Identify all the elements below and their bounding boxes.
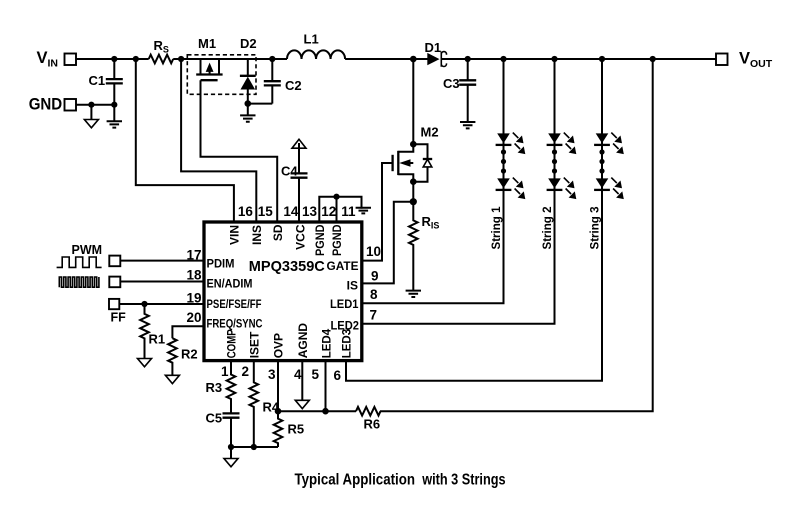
ground earth at PGND	[356, 208, 371, 214]
transistor M2	[393, 59, 439, 182]
svg-text:PSE/FSE/FF: PSE/FSE/FF	[207, 297, 262, 311]
svg-text:18: 18	[186, 268, 202, 283]
wire D1 to VOUT	[442, 58, 717, 60]
svg-text:PDIM: PDIM	[207, 257, 235, 271]
ground arrow AGND	[295, 400, 309, 408]
node dot return branch	[650, 56, 656, 62]
svg-text:14: 14	[283, 204, 299, 219]
svg-text:10: 10	[366, 244, 381, 259]
svg-text:7: 7	[370, 308, 378, 323]
resistor R2	[168, 338, 198, 375]
wire OVP junction to R6	[278, 410, 356, 412]
svg-text:M1: M1	[198, 36, 216, 51]
node dot after Rs	[178, 56, 184, 62]
svg-text:IS: IS	[347, 279, 358, 293]
svg-text:GND: GND	[29, 96, 63, 114]
svg-text:FREQ/SYNC: FREQ/SYNC	[207, 317, 263, 331]
svg-text:LED3: LED3	[340, 328, 354, 358]
wire GND to C1 bottom	[76, 104, 114, 106]
capacitor C4 with VCC arrow	[281, 139, 308, 222]
wire L1 to D1	[345, 58, 429, 60]
svg-text:PGND: PGND	[313, 224, 327, 256]
svg-text:R1: R1	[149, 332, 166, 347]
capacitor C3	[443, 59, 476, 122]
LED string 1	[489, 133, 525, 250]
node dot C1 bottom	[111, 102, 117, 108]
wire M2 source to Ris	[412, 182, 414, 202]
inductor L1	[287, 32, 345, 60]
node dot LED4 junction	[322, 408, 329, 415]
wire Rs to L1	[173, 58, 287, 60]
ground arrow under R2	[165, 375, 179, 383]
node dot C3 top	[465, 56, 471, 62]
ground earth under D2	[240, 104, 255, 122]
node dot pin11 junction	[333, 194, 339, 200]
svg-text:5: 5	[311, 367, 319, 382]
resistor Rs	[149, 38, 174, 63]
node dot string1 top	[500, 56, 506, 62]
svg-text:C4: C4	[281, 164, 298, 179]
node dot R4 bottom	[251, 444, 257, 450]
capacitor C5	[206, 411, 240, 448]
svg-text:9: 9	[371, 269, 379, 284]
svg-text:D2: D2	[240, 36, 257, 51]
wire VIN branch to pin16	[136, 59, 234, 222]
svg-text:String 3: String 3	[588, 206, 602, 249]
node dot string3 top	[599, 56, 605, 62]
resistor R6	[356, 407, 381, 432]
wire IS junction to pin9	[361, 202, 414, 284]
op-amp U1 IC MPQ3359C body	[204, 222, 362, 361]
ground earth under C1	[107, 121, 122, 127]
svg-text:LED4: LED4	[319, 328, 333, 358]
svg-text:3: 3	[268, 367, 276, 382]
node FF input terminal	[109, 299, 126, 325]
svg-text:LED1: LED1	[330, 297, 359, 311]
svg-text:VCC: VCC	[293, 224, 307, 250]
node dot IS junction	[410, 198, 417, 205]
diode D2	[240, 36, 257, 104]
resistor R1	[140, 304, 165, 359]
resistor Ris	[409, 202, 439, 291]
LED string 2	[540, 133, 576, 250]
node GND terminal	[29, 96, 76, 114]
svg-text:COMP: COMP	[225, 329, 239, 358]
node dot R1 junction	[141, 301, 147, 307]
node VOUT terminal	[716, 50, 773, 71]
svg-text:C2: C2	[285, 78, 302, 93]
node dot C5 bottom	[228, 444, 234, 450]
svg-text:OVP: OVP	[272, 333, 286, 358]
wire pin6 LED3 to string3	[346, 59, 602, 381]
wire EN/ADIM to pin18	[121, 281, 204, 283]
svg-text:16: 16	[238, 204, 254, 219]
svg-text:String 1: String 1	[489, 206, 503, 249]
node dot M2 drain	[410, 141, 417, 148]
svg-text:PGND: PGND	[330, 224, 344, 256]
ground earth under Ris	[406, 291, 421, 297]
node EN/ADIM input terminal	[109, 277, 120, 288]
svg-text:D1: D1	[425, 40, 442, 55]
svg-text:AGND: AGND	[296, 323, 310, 359]
svg-text:R2: R2	[181, 347, 198, 362]
wire pin7 LED2 to string2	[361, 59, 555, 324]
svg-text:SD: SD	[271, 224, 285, 241]
diode D1	[425, 40, 447, 67]
node dot GND junction	[88, 102, 94, 108]
wire bottom bus	[231, 446, 278, 448]
node dot OVP junction	[275, 408, 282, 415]
wire VIN rail to Rs	[76, 58, 149, 60]
node dot M2 branch	[410, 56, 417, 63]
wire D2 bottom to C2 bottom	[248, 103, 272, 105]
svg-text:C1: C1	[89, 73, 106, 88]
node dot VIN-pin16 branch	[133, 56, 139, 62]
svg-text:INS: INS	[250, 225, 264, 245]
node dot C1 top	[111, 56, 117, 62]
svg-text:PWM: PWM	[72, 243, 103, 257]
svg-text:13: 13	[302, 204, 318, 219]
svg-text:EN/ADIM: EN/ADIM	[207, 277, 253, 291]
ground arrow under R1	[138, 359, 152, 367]
svg-text:6: 6	[333, 368, 341, 383]
wire pin3 OVP down	[277, 361, 279, 412]
svg-text:String 2: String 2	[540, 206, 554, 249]
transistor M1 (dashed outline)	[187, 36, 256, 94]
svg-text:R3: R3	[206, 380, 223, 395]
capacitor C1	[89, 59, 123, 121]
node dot M2 source	[410, 178, 417, 185]
svg-text:R6: R6	[364, 417, 381, 432]
wire pin20 to R2	[172, 326, 204, 338]
wire PDIM to pin17	[121, 260, 204, 262]
capacitor C2	[264, 59, 302, 104]
svg-text:1: 1	[221, 364, 229, 379]
svg-text:VIN: VIN	[228, 225, 242, 245]
node dot C2 top	[269, 56, 275, 62]
svg-text:12: 12	[321, 204, 336, 219]
svg-text:8: 8	[370, 287, 378, 302]
svg-text:C5: C5	[206, 411, 223, 426]
svg-text:C3: C3	[443, 76, 460, 91]
wire pin8 LED1 to string1	[361, 59, 504, 303]
svg-text:4: 4	[294, 367, 302, 382]
wire AGND pin4	[301, 361, 303, 401]
node dot D2 bottom	[245, 100, 252, 107]
svg-text:M2: M2	[421, 125, 439, 140]
node VIN terminal	[37, 49, 77, 70]
node PDIM input terminal	[109, 256, 120, 267]
LED string 3	[588, 133, 624, 250]
wire return VOUT to R6	[380, 59, 653, 411]
svg-text:L1: L1	[304, 32, 319, 47]
waveform PWM slow square wave	[57, 257, 102, 267]
svg-text:20: 20	[186, 310, 201, 325]
waveform fast square wave	[59, 277, 99, 287]
svg-text:GATE: GATE	[327, 259, 359, 273]
resistor R4	[250, 361, 280, 447]
wire FF to pin19	[119, 303, 204, 305]
svg-text:11: 11	[341, 204, 356, 219]
ground arrow under GND junction	[84, 105, 98, 128]
resistor R3	[206, 361, 236, 414]
node dot string2 top	[551, 56, 557, 62]
svg-text:with 3 Strings: with 3 Strings	[421, 472, 505, 489]
svg-text:ISET: ISET	[247, 331, 261, 358]
wire M1 gate to pin14 SD	[201, 80, 278, 222]
wire INS branch to pin15	[181, 59, 256, 222]
resistor R5	[274, 411, 304, 447]
svg-text:2: 2	[241, 364, 249, 379]
svg-text:MPQ3359C: MPQ3359C	[249, 258, 325, 275]
wire pin5 LED4 down	[325, 361, 327, 412]
wire PGND pins 12/11 to ground	[319, 197, 361, 222]
wire M2 gate to pin10	[361, 163, 393, 261]
svg-text:R5: R5	[288, 422, 305, 437]
ground earth under C3	[460, 122, 475, 128]
ground arrow under C5	[224, 447, 238, 467]
svg-text:FF: FF	[111, 311, 127, 325]
svg-text:15: 15	[258, 204, 274, 219]
svg-text:Typical Application: Typical Application	[295, 472, 416, 489]
